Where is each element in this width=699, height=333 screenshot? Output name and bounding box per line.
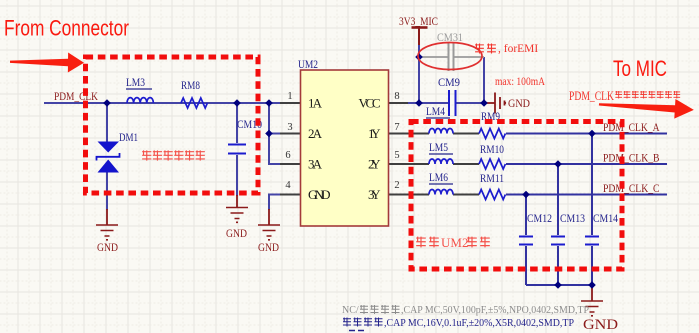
svg-text:RM10: RM10 <box>480 144 504 156</box>
svg-text:3Y: 3Y <box>368 187 381 202</box>
svg-text:PDM_CLK: PDM_CLK <box>569 89 614 103</box>
svg-text:8: 8 <box>394 91 399 102</box>
svg-text:GND: GND <box>308 187 331 202</box>
svg-text:2A: 2A <box>308 126 323 141</box>
svg-text:CM14: CM14 <box>593 213 618 225</box>
svg-text:LM3: LM3 <box>126 77 145 89</box>
svg-text:5: 5 <box>394 150 399 161</box>
svg-text:,CAP MC,16V,0.1uF,±20%,X5R,040: ,CAP MC,16V,0.1uF,±20%,X5R,0402,SMD,TP <box>384 318 574 329</box>
svg-text:PDM_CLK: PDM_CLK <box>54 91 99 103</box>
svg-text:GND: GND <box>258 242 279 254</box>
svg-text:max: 100mA: max: 100mA <box>495 76 546 88</box>
svg-text:From Connector: From Connector <box>4 16 129 41</box>
svg-text:6: 6 <box>285 150 290 161</box>
svg-text:To MIC: To MIC <box>613 56 667 81</box>
svg-text:DM1: DM1 <box>119 132 138 144</box>
svg-text:CM13: CM13 <box>560 213 585 225</box>
svg-text:2Y: 2Y <box>368 157 381 172</box>
svg-text:NC/: NC/ <box>342 305 359 316</box>
svg-text:LM4: LM4 <box>426 106 445 118</box>
svg-text:4: 4 <box>285 180 291 191</box>
svg-text:LM5: LM5 <box>429 142 448 154</box>
svg-text:, forEMI: , forEMI <box>498 43 538 55</box>
svg-text:UM2: UM2 <box>298 59 318 71</box>
svg-text:VCC: VCC <box>359 96 381 111</box>
svg-text:PDM_CLK_C: PDM_CLK_C <box>603 183 660 195</box>
svg-text:1: 1 <box>287 91 292 102</box>
svg-text:GND: GND <box>226 228 247 240</box>
svg-text:RM11: RM11 <box>480 173 504 185</box>
svg-text:PDM_CLK_B: PDM_CLK_B <box>603 153 660 165</box>
svg-text:CM9: CM9 <box>438 77 460 89</box>
svg-text:CM12: CM12 <box>527 213 552 225</box>
svg-text:1A: 1A <box>308 96 323 111</box>
svg-text:7: 7 <box>394 122 399 133</box>
svg-text:LM6: LM6 <box>429 172 448 184</box>
svg-text:3A: 3A <box>308 157 323 172</box>
svg-text:3V3_MIC: 3V3_MIC <box>399 16 438 28</box>
svg-text:3: 3 <box>287 122 292 133</box>
svg-text:2: 2 <box>394 180 399 191</box>
svg-text:1Y: 1Y <box>368 126 381 141</box>
svg-text:GND: GND <box>583 317 618 333</box>
svg-text:UM2: UM2 <box>441 235 468 250</box>
svg-text:GND: GND <box>97 242 118 254</box>
svg-text:,CAP MC,50V,100pF,±5%,NPO,0402: ,CAP MC,50V,100pF,±5%,NPO,0402,SMD,TP <box>401 305 589 316</box>
svg-text:RM8: RM8 <box>181 80 200 92</box>
svg-text:GND: GND <box>508 98 530 110</box>
